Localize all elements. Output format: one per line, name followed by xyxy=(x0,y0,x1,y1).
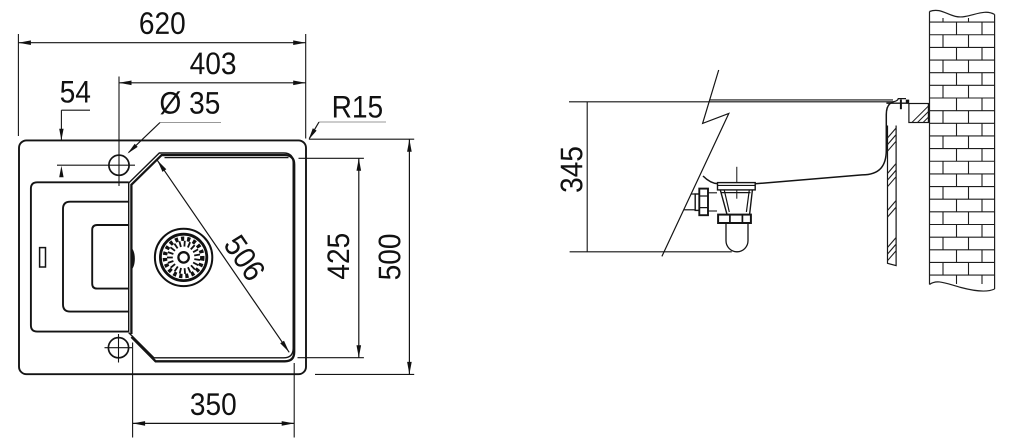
sink rim top line xyxy=(710,99,893,101)
bowl profile left section xyxy=(703,176,718,184)
overflow pipe lines xyxy=(691,193,695,195)
tap hole top circle xyxy=(109,155,129,175)
clamp screw tick xyxy=(900,100,902,110)
overflow connector lines xyxy=(708,192,717,194)
dim R15 underline xyxy=(319,121,386,123)
dim 620 left extension line xyxy=(17,34,19,136)
dim 350 right extension xyxy=(293,363,295,438)
back panel strip xyxy=(888,126,897,266)
drain nut facet lines xyxy=(730,215,743,223)
dim 403 text xyxy=(190,52,235,74)
dim 345 text xyxy=(560,147,582,192)
dim 54 leader bar xyxy=(61,109,90,111)
drain strainer xyxy=(155,229,212,286)
dim diameter 35 leader xyxy=(129,123,160,153)
sink back under-edge line xyxy=(886,102,909,104)
dim 620 text xyxy=(140,12,184,34)
dim 350 left extension xyxy=(132,343,134,438)
dim 500 top extension xyxy=(309,138,414,140)
bowl inner top edge line xyxy=(165,157,289,159)
wall brick course lines xyxy=(930,22,995,275)
drainboard slot xyxy=(40,248,46,267)
dim 506 diagonal line xyxy=(157,160,289,352)
wall left edge xyxy=(929,12,931,285)
dim R15 text xyxy=(334,96,382,118)
drain cup inner walls xyxy=(724,190,749,212)
back panel strip hatch marks xyxy=(888,128,897,261)
countertop section block xyxy=(909,104,929,123)
dim 500 bottom extension xyxy=(315,373,414,375)
dim 506 text xyxy=(223,233,266,282)
drain cup outer walls xyxy=(720,190,752,215)
overflow pipe stub cap xyxy=(695,194,699,210)
tap hole bottom centerline horizontal xyxy=(105,347,133,349)
wall right edge xyxy=(994,15,996,290)
overflow mark on bowl left edge xyxy=(132,249,135,270)
tap hole top centerline horizontal xyxy=(57,164,135,166)
bowl rim outer thin contour xyxy=(129,153,294,358)
dim 500 text xyxy=(378,235,400,280)
bowl profile right section xyxy=(755,102,893,184)
bowl rim inner thick contour xyxy=(131,155,294,361)
fastening clamp block xyxy=(906,100,909,104)
tap hole top centerline vertical xyxy=(118,77,120,187)
dim 54 lower arrow xyxy=(59,166,63,178)
overflow nut xyxy=(699,189,708,216)
dim 425 top extension xyxy=(299,157,364,159)
dim 620 right extension line xyxy=(305,34,307,139)
dim 425 text xyxy=(327,234,349,279)
dim 500 line xyxy=(408,139,410,374)
dim 350 line xyxy=(133,422,295,424)
wall top break wave xyxy=(930,10,995,17)
drain cup inner step line xyxy=(722,192,751,194)
drain tailpiece xyxy=(726,223,748,252)
wall brick vertical joints xyxy=(943,18,982,284)
drain flange middle line xyxy=(718,184,756,186)
drain nut xyxy=(718,215,751,223)
countertop section hatch xyxy=(912,104,965,123)
drainboard inner contour xyxy=(92,225,129,289)
dim 425 line xyxy=(358,158,360,357)
dim R15 leader xyxy=(309,122,319,139)
dim 345 line xyxy=(586,102,588,252)
dim 345 bottom line xyxy=(570,251,732,253)
sink back rim raised edge xyxy=(893,99,906,102)
dim 350 text xyxy=(191,393,236,415)
counter surface line xyxy=(569,101,894,103)
tap hole bottom circle xyxy=(108,338,128,358)
wall bottom break wave xyxy=(930,282,995,291)
tap hole bottom centerline vertical xyxy=(118,334,120,363)
drainboard outer contour xyxy=(31,182,129,331)
dim 506 lower arrow xyxy=(280,341,289,353)
dim 403 line xyxy=(119,82,306,84)
dim 620 line xyxy=(18,42,305,44)
dim 54 text xyxy=(61,81,90,103)
dim diameter 35 text xyxy=(160,91,219,114)
dim 54 vertical line xyxy=(60,110,62,140)
drainboard middle contour xyxy=(63,202,129,312)
drain flange xyxy=(718,183,756,190)
dim diameter 35 underline xyxy=(160,122,221,124)
sink outer outline xyxy=(19,140,306,374)
dim 425 bottom extension xyxy=(298,357,364,359)
section break line xyxy=(662,70,729,256)
drain centerline xyxy=(736,167,738,199)
